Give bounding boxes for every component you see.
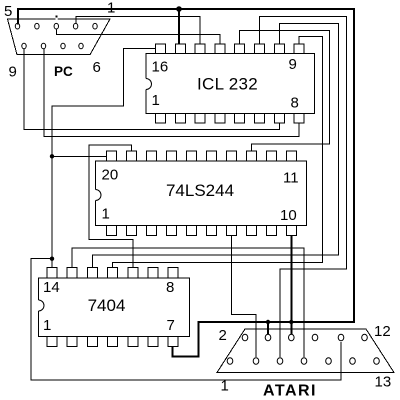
svg-text:74LS244: 74LS244 bbox=[166, 181, 234, 200]
svg-text:10: 10 bbox=[280, 207, 297, 224]
svg-text:8: 8 bbox=[291, 95, 299, 112]
svg-text:1: 1 bbox=[107, 0, 115, 17]
svg-text:7: 7 bbox=[167, 317, 175, 334]
svg-text:1: 1 bbox=[43, 317, 51, 334]
svg-text:5: 5 bbox=[4, 3, 12, 20]
svg-text:1: 1 bbox=[102, 206, 110, 223]
svg-text:1: 1 bbox=[221, 378, 229, 395]
svg-text:20: 20 bbox=[102, 167, 119, 184]
svg-text:1: 1 bbox=[152, 92, 160, 109]
svg-text:16: 16 bbox=[152, 59, 169, 76]
svg-text:ATARI: ATARI bbox=[263, 383, 317, 400]
svg-text:13: 13 bbox=[375, 374, 392, 391]
svg-text:PC: PC bbox=[54, 64, 73, 79]
svg-text:14: 14 bbox=[43, 279, 60, 296]
svg-text:12: 12 bbox=[374, 323, 391, 340]
svg-text:7404: 7404 bbox=[88, 296, 126, 315]
svg-text:2: 2 bbox=[219, 327, 227, 344]
svg-text:8: 8 bbox=[166, 279, 174, 296]
svg-text:9: 9 bbox=[289, 56, 297, 73]
svg-text:ICL 232: ICL 232 bbox=[197, 75, 258, 94]
svg-text:9: 9 bbox=[9, 64, 17, 81]
svg-text:6: 6 bbox=[93, 59, 101, 76]
svg-text:11: 11 bbox=[283, 170, 299, 187]
